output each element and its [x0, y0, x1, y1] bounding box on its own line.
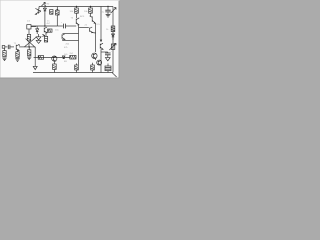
resistor R9 on right vertical — [106, 26, 115, 32]
wire: line to x35 drop — [29, 46, 35, 48]
emitter resistor R2 + ground — [15, 50, 19, 62]
white schematic page — [0, 0, 119, 78]
wire: mid horizontal y40.5 — [63, 40, 79, 42]
resistor R3 (top, small box) — [50, 10, 53, 15]
transistor Q3 (VAS) — [44, 27, 47, 33]
grey desktop background — [0, 0, 130, 88]
wire: x78.5 vertical to rail — [78, 28, 80, 65]
transistor Q1 (top-left, under rail) — [35, 7, 41, 15]
diode D3 on right vertical — [112, 34, 115, 40]
wire: hook line y27.5 from x78.5 — [79, 27, 89, 29]
wire: hook to vertical — [93, 32, 96, 34]
wire: horizontal y57.5 — [34, 57, 70, 59]
ground under C6 — [106, 14, 111, 17]
electrolytic cap C4 in series — [61, 22, 66, 28]
coupling cap C2 (x27 area, feedback box) — [27, 25, 36, 29]
wire: horizontal node line y26 — [31, 25, 57, 27]
input resistor R1 to ground — [2, 48, 6, 60]
capacitor C6 from rail x108 — [105, 6, 110, 14]
coupling capacitor C1 — [8, 45, 14, 49]
wire: drop from rail x57 — [56, 7, 58, 10]
wire: x35 vertical to ground arrow — [34, 47, 36, 66]
page edge shadow — [0, 1, 119, 78]
transistor Q2 input — [14, 43, 20, 51]
transistor Q11 — [62, 34, 65, 41]
output transistor Q9 — [96, 59, 102, 66]
diode D2 (x37 down) — [36, 27, 39, 35]
transistor Q4 — [76, 18, 79, 28]
wire: mid horizontal y33.5 — [63, 33, 79, 35]
resistor R8 (horizontal, right of Q3) — [48, 29, 52, 32]
wire: top supply rail — [39, 6, 113, 8]
diode D1 on rail — [43, 7, 46, 13]
wire: bottom rail — [33, 72, 113, 74]
electrolytic C8 — [101, 51, 113, 57]
emitter resistor R14 — [75, 63, 79, 72]
transistor Q5 under R6 — [90, 13, 96, 23]
wire: long vertical x95.5 — [95, 25, 97, 52]
resistor R7 below C2 — [27, 29, 30, 47]
wire: crossing diagonal B — [26, 39, 36, 48]
diode pair on y57.5 — [62, 56, 65, 59]
wire: Q2 collector right — [19, 46, 29, 48]
trimmer / pot with arrow (right) — [109, 43, 116, 50]
output transistor Q7 — [92, 53, 97, 59]
wire: right supply vertical — [112, 7, 114, 73]
resistor R10 (x46 vertical) — [44, 32, 47, 42]
emitter resistor R15 — [91, 63, 95, 73]
arrowhead on x101 wire — [100, 40, 102, 43]
capacitor C9 (bottom right, to rail) — [105, 64, 111, 73]
resistor R16 on x57 drop — [56, 9, 60, 26]
ground arrow at x35 — [33, 66, 37, 69]
input terminal J1 — [2, 46, 7, 49]
collector resistor R4 + ground — [27, 47, 31, 60]
diodes D4 D5 (M shape) — [36, 34, 41, 43]
wire: vertical x44.5 from diode to node — [44, 13, 46, 26]
resistor R13 to rail — [53, 64, 57, 73]
current mirror mark — [42, 34, 45, 36]
supply arrow tick at rail start — [42, 2, 47, 6]
node dot — [56, 9, 58, 11]
wire: vertical x101 from rail — [100, 7, 102, 41]
transistor Q8 on x101 — [100, 43, 103, 72]
wire: Q6 emitter down — [54, 61, 56, 64]
series resistor R11 on y57.5 — [38, 56, 43, 60]
transistor Q10 hook — [90, 27, 93, 33]
wire: crossing diagonal A — [24, 37, 36, 47]
transistor Q6 on y57.5 — [52, 56, 57, 61]
node — [28, 46, 30, 48]
wire: node line y26 left part — [57, 25, 63, 27]
resistor R6 (x90 from rail) — [84, 6, 92, 13]
chassis tick bottom right — [112, 73, 116, 77]
wire: node line y26 right part — [66, 25, 77, 27]
wire: R5 down to Q4 — [76, 13, 78, 18]
output arrow (top right) — [111, 8, 116, 14]
wire: Q5 emitter to long vertical — [94, 23, 96, 25]
series resistor R12 (2k2) — [70, 53, 77, 59]
resistor R5 (x76 from rail) — [70, 6, 79, 13]
junction node — [44, 25, 46, 27]
svg-text:8R: 8R — [64, 61, 67, 63]
ground arrow under C8 — [105, 58, 110, 61]
